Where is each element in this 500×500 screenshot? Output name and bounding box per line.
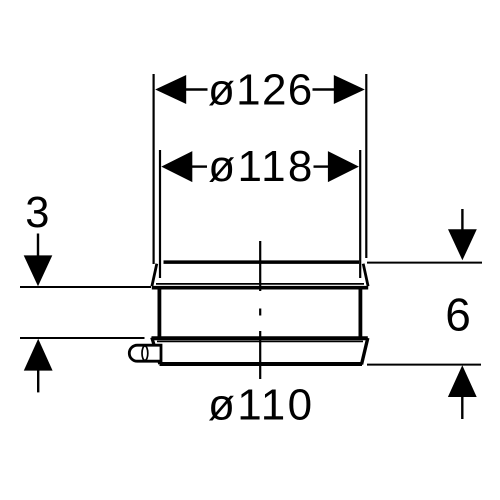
dimension ø126 arrow left bbox=[155, 75, 186, 104]
dimension 3 upper arrow stem bbox=[37, 234, 39, 257]
dimension ø118 extension line left bbox=[159, 150, 161, 278]
part: ring top thick line bbox=[152, 336, 368, 340]
svg-text:3: 3 bbox=[25, 189, 49, 237]
part: ring right slant bbox=[362, 338, 368, 365]
dimension 3 upper extension line bbox=[20, 286, 151, 288]
part: ring left slant bbox=[152, 338, 160, 365]
part: ring bottom line bbox=[160, 362, 363, 366]
dimension 6 upper arrow stem bbox=[461, 209, 463, 230]
part: flange bottom thin line bbox=[156, 283, 364, 285]
centerline bbox=[259, 241, 261, 379]
dimension ø126 line segment right bbox=[313, 88, 335, 90]
dimension 6 lower arrow (up) bbox=[448, 365, 477, 397]
svg-text:ø126: ø126 bbox=[208, 66, 314, 115]
dimension ø118 arrow right bbox=[328, 151, 359, 182]
dimension 3 lower extension line bbox=[20, 337, 145, 339]
part: top surface bbox=[164, 260, 360, 264]
dimension ø126 arrow right bbox=[334, 75, 365, 104]
part: flange right slant bbox=[363, 264, 368, 287]
part: nub end-cap ellipse bbox=[142, 346, 148, 361]
part: body right side bbox=[358, 287, 362, 339]
part: ring top thin line bbox=[157, 340, 363, 342]
dimension ø118 line segment right bbox=[314, 165, 329, 167]
part: flange bottom thick line bbox=[152, 286, 368, 290]
dimension 6 upper arrow (down) bbox=[448, 229, 477, 260]
dimension 6 upper extension line bbox=[367, 262, 482, 264]
dimension 3 lower arrow (up) bbox=[24, 339, 53, 371]
dimension ø126 extension line left bbox=[153, 74, 155, 264]
dimension 6 lower arrow stem bbox=[461, 396, 463, 419]
svg-text:ø110: ø110 bbox=[208, 380, 314, 429]
dimension ø118 line segment left bbox=[191, 165, 207, 167]
dimension ø126 line segment left bbox=[185, 88, 208, 90]
dimension 3 upper arrow (down) bbox=[24, 255, 53, 286]
dimension ø118 arrow left bbox=[161, 151, 192, 182]
svg-text:6: 6 bbox=[445, 288, 471, 340]
svg-text:ø118: ø118 bbox=[208, 142, 314, 191]
dimension ø126 extension line right bbox=[365, 74, 367, 258]
dimension 6 lower extension line bbox=[367, 364, 481, 366]
part: body left side bbox=[157, 287, 161, 339]
dimension ø118 extension line right bbox=[359, 150, 361, 278]
part: flange left slant bbox=[152, 264, 157, 287]
dimension 3 lower arrow stem bbox=[37, 370, 39, 393]
part: nub (small spigot, white filled) bbox=[129, 345, 161, 361]
